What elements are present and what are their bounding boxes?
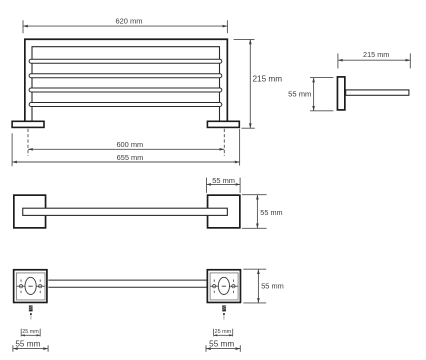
side view wall plate bbox=[337, 77, 344, 110]
middle view left square plate bbox=[14, 195, 46, 228]
dimension 215 mm (side) line bbox=[338, 53, 410, 68]
dimension 600 mm line bbox=[28, 148, 224, 150]
bottom bar top line bbox=[48, 279, 206, 281]
dashed extension left (600 mm) bbox=[27, 129, 29, 156]
right plate left screw hole bbox=[213, 285, 216, 288]
svg-text:55 mm: 55 mm bbox=[212, 176, 235, 185]
dimension 55 mm (middle top) bbox=[207, 178, 241, 193]
dimension 55 mm (side left) extensions bbox=[310, 78, 333, 111]
svg-text:55 mm: 55 mm bbox=[288, 89, 311, 98]
dimension 55 mm (bottom left) bbox=[13, 345, 48, 352]
right plate outer square bbox=[207, 270, 240, 303]
dimension 55 mm (bottom right) arrows bbox=[206, 347, 240, 350]
dimension 25 mm (right) arrows bbox=[214, 334, 233, 336]
right plate ellipse center dash bbox=[222, 285, 226, 287]
dimension 655 mm line bbox=[12, 161, 240, 163]
side view bar bbox=[346, 90, 409, 95]
right screw anchor bbox=[222, 305, 226, 319]
dimension 55 mm (bottom right) bbox=[206, 345, 240, 352]
svg-text:215 mm: 215 mm bbox=[253, 74, 283, 83]
right wall bracket foot bbox=[207, 121, 239, 127]
dimension 215 mm (side) arrows bbox=[338, 59, 410, 62]
svg-text:655 mm: 655 mm bbox=[117, 153, 144, 162]
right plate inner square bbox=[210, 273, 238, 300]
svg-text:600 mm: 600 mm bbox=[116, 140, 143, 149]
towel bar 4 bbox=[29, 103, 222, 107]
left plate left screw hole center marks bbox=[20, 280, 22, 294]
dimension 215 mm (front right) extension top bbox=[234, 38, 255, 40]
left plate ellipse center dash bbox=[28, 285, 32, 287]
left plate inner square bbox=[16, 273, 45, 300]
left plate left screw hole bbox=[19, 285, 22, 288]
svg-text:55 mm: 55 mm bbox=[260, 208, 282, 217]
right plate right screw hole bbox=[232, 285, 235, 288]
svg-text:25 mm: 25 mm bbox=[22, 329, 39, 335]
right plate right screw hole center marks bbox=[232, 280, 234, 294]
left plate right screw hole bbox=[39, 285, 42, 288]
dimension 600 mm arrows bbox=[28, 148, 224, 151]
middle view right square plate bbox=[208, 195, 240, 228]
dimension 655 mm extension right bbox=[239, 129, 241, 166]
svg-text:55 mm: 55 mm bbox=[15, 339, 40, 348]
right plate centerline left segment bbox=[210, 285, 218, 287]
towel bar 2 bbox=[29, 74, 222, 78]
dimension 655 mm arrows bbox=[12, 161, 240, 164]
dimension 655 mm extension left bbox=[11, 133, 13, 166]
svg-text:215 mm: 215 mm bbox=[363, 50, 389, 59]
dimension 25 mm (left) arrows bbox=[21, 334, 40, 336]
svg-text:620 mm: 620 mm bbox=[115, 16, 142, 25]
left wall bracket foot bbox=[12, 121, 44, 127]
dimension 55 mm (bottom left) arrows bbox=[13, 347, 48, 350]
right plate keyhole ellipse bbox=[218, 277, 229, 294]
svg-text:55 mm: 55 mm bbox=[209, 339, 234, 348]
left screw anchor bbox=[29, 305, 33, 319]
dimension 215 mm (front right) arrows bbox=[249, 39, 252, 128]
shelf inner frame bbox=[32, 47, 220, 121]
dimension 215 mm (front right) line bbox=[249, 39, 251, 128]
dashed extension right (600 mm) bbox=[223, 129, 225, 156]
shelf outer frame bbox=[25, 39, 228, 121]
dimension 620 mm line bbox=[23, 20, 227, 33]
svg-text:55 mm: 55 mm bbox=[261, 282, 284, 291]
dimension 55 mm (middle top) arrows bbox=[207, 183, 241, 186]
left plate centerline left segment bbox=[17, 285, 26, 287]
dimension 25 mm (left) bbox=[21, 329, 40, 337]
middle view bar bbox=[23, 208, 228, 215]
dimension 215 mm (front right) extension bottom bbox=[242, 127, 255, 129]
dimension 620 mm arrows bbox=[23, 25, 227, 28]
right plate left screw hole center marks bbox=[213, 280, 215, 294]
towel bar 1 bbox=[29, 59, 222, 63]
left plate centerline right segment bbox=[36, 285, 45, 287]
dimension 25 mm (right) bbox=[214, 329, 233, 337]
dimension 55 mm (middle right) extensions bbox=[242, 195, 267, 229]
dimension 55 mm (bottom right plate) extensions bbox=[243, 269, 266, 303]
left plate keyhole ellipse bbox=[25, 277, 36, 294]
left plate right screw hole center marks bbox=[39, 280, 41, 294]
dimension 55 mm (bottom right plate) arrows bbox=[257, 269, 260, 303]
svg-text:25 mm: 25 mm bbox=[215, 329, 232, 335]
dimension 55 mm (middle right) arrows bbox=[256, 195, 259, 229]
left plate outer square bbox=[14, 270, 47, 303]
dimension 55 mm (side left) arrows bbox=[312, 78, 315, 111]
bottom bar bottom line bbox=[48, 286, 206, 288]
right plate centerline right segment bbox=[230, 285, 239, 287]
towel bar 3 bbox=[29, 88, 222, 92]
